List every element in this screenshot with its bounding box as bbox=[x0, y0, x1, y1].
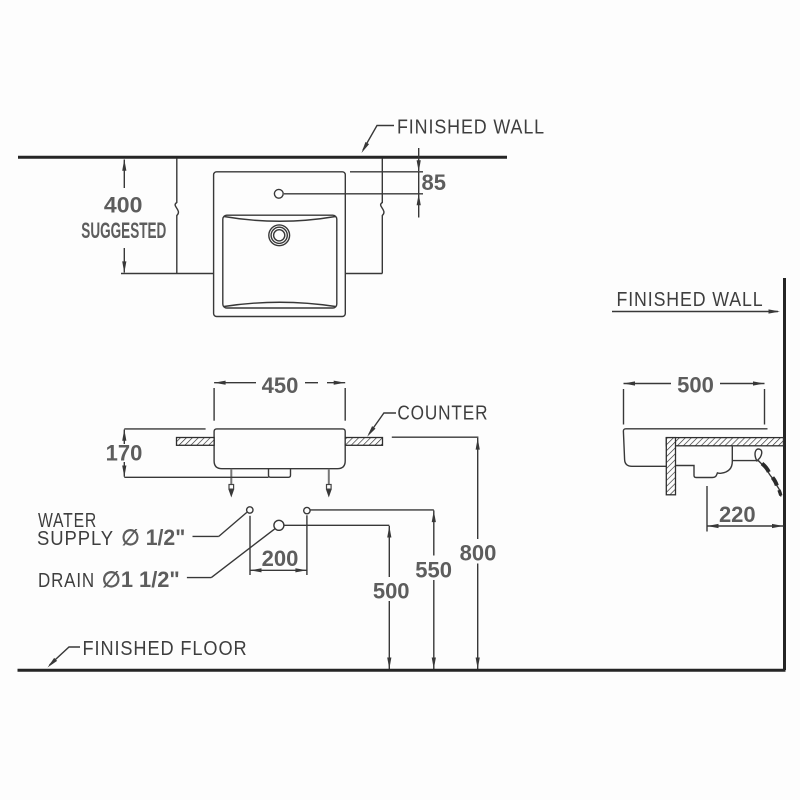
node label FINISHED WALL (top) bbox=[360, 117, 545, 155]
wire top wall line (plan view) bbox=[18, 156, 507, 159]
node label COUNTER bbox=[365, 403, 488, 438]
svg-text:450: 450 bbox=[262, 373, 299, 398]
counter front edge right (plan view) bbox=[345, 273, 382, 275]
water supply point left bbox=[247, 507, 253, 513]
wire counter to 800 dim bbox=[392, 436, 479, 438]
counter front edge left (plan view) bbox=[121, 273, 214, 275]
dimension 400 SUGGESTED bbox=[81, 159, 166, 273]
svg-text:SUGGESTED: SUGGESTED bbox=[81, 218, 166, 243]
wire floor line bbox=[18, 669, 786, 672]
counter break line left (plan view) bbox=[175, 159, 178, 274]
water supply point right bbox=[304, 507, 310, 513]
drain tailpiece (front view) bbox=[269, 469, 291, 478]
svg-text:500: 500 bbox=[373, 579, 410, 604]
svg-text:85: 85 bbox=[422, 170, 446, 195]
dimension 170 (front view) bbox=[106, 429, 269, 477]
svg-text:DRAIN: DRAIN bbox=[38, 570, 95, 592]
svg-text:FINISHED FLOOR: FINISHED FLOOR bbox=[83, 638, 248, 660]
svg-text:SUPPLY: SUPPLY bbox=[37, 528, 114, 550]
counter hatched right (front view) bbox=[345, 438, 382, 446]
svg-text:500: 500 bbox=[677, 373, 714, 398]
bowl under counter (side view) bbox=[676, 446, 759, 477]
dimension 500 (height) bbox=[284, 525, 410, 669]
dimension 500 (side view width) bbox=[624, 373, 765, 425]
dimension 550 bbox=[310, 510, 452, 669]
flexible hose (side view) bbox=[755, 449, 781, 496]
svg-text:COUNTER: COUNTER bbox=[397, 403, 488, 425]
svg-text:400: 400 bbox=[104, 193, 143, 218]
faucet hole (plan view) bbox=[274, 189, 283, 198]
svg-text:FINISHED WALL: FINISHED WALL bbox=[397, 117, 545, 139]
supply stub right (front view) bbox=[326, 469, 332, 498]
node label WATER SUPPLY bbox=[37, 510, 247, 550]
basin body (front view) bbox=[214, 429, 345, 469]
svg-text:∅ 1/2": ∅ 1/2" bbox=[121, 525, 185, 550]
node label FINISHED WALL (right) bbox=[612, 289, 780, 314]
svg-text:800: 800 bbox=[460, 540, 497, 565]
node label DRAIN bbox=[38, 529, 275, 592]
counter slab hatched (side view) bbox=[666, 438, 783, 495]
dimension 200 bbox=[250, 515, 307, 575]
svg-text:170: 170 bbox=[106, 441, 143, 466]
wire right wall line (side view) bbox=[783, 278, 786, 670]
svg-text:550: 550 bbox=[415, 557, 452, 582]
drain (plan view) bbox=[269, 225, 290, 246]
svg-text:∅1 1/2": ∅1 1/2" bbox=[102, 567, 180, 592]
basin outer rim (plan view) bbox=[214, 172, 346, 317]
dimension 800 bbox=[460, 438, 497, 669]
basin inner bowl (plan view) bbox=[223, 215, 337, 308]
supply stub left (front view) bbox=[229, 469, 235, 498]
drain point bbox=[274, 520, 284, 530]
dimension 85 bbox=[284, 148, 446, 218]
dimension 450 (front view) bbox=[214, 373, 345, 421]
counter hatched left (front view) bbox=[177, 438, 215, 446]
counter break line right (plan view) bbox=[381, 159, 384, 274]
svg-text:FINISHED WALL: FINISHED WALL bbox=[617, 289, 764, 311]
svg-text:220: 220 bbox=[719, 502, 756, 527]
node label FINISHED FLOOR bbox=[46, 638, 247, 669]
basin body (side view) bbox=[623, 429, 767, 467]
svg-text:200: 200 bbox=[262, 546, 299, 571]
dimension 220 (side view) bbox=[707, 486, 784, 532]
